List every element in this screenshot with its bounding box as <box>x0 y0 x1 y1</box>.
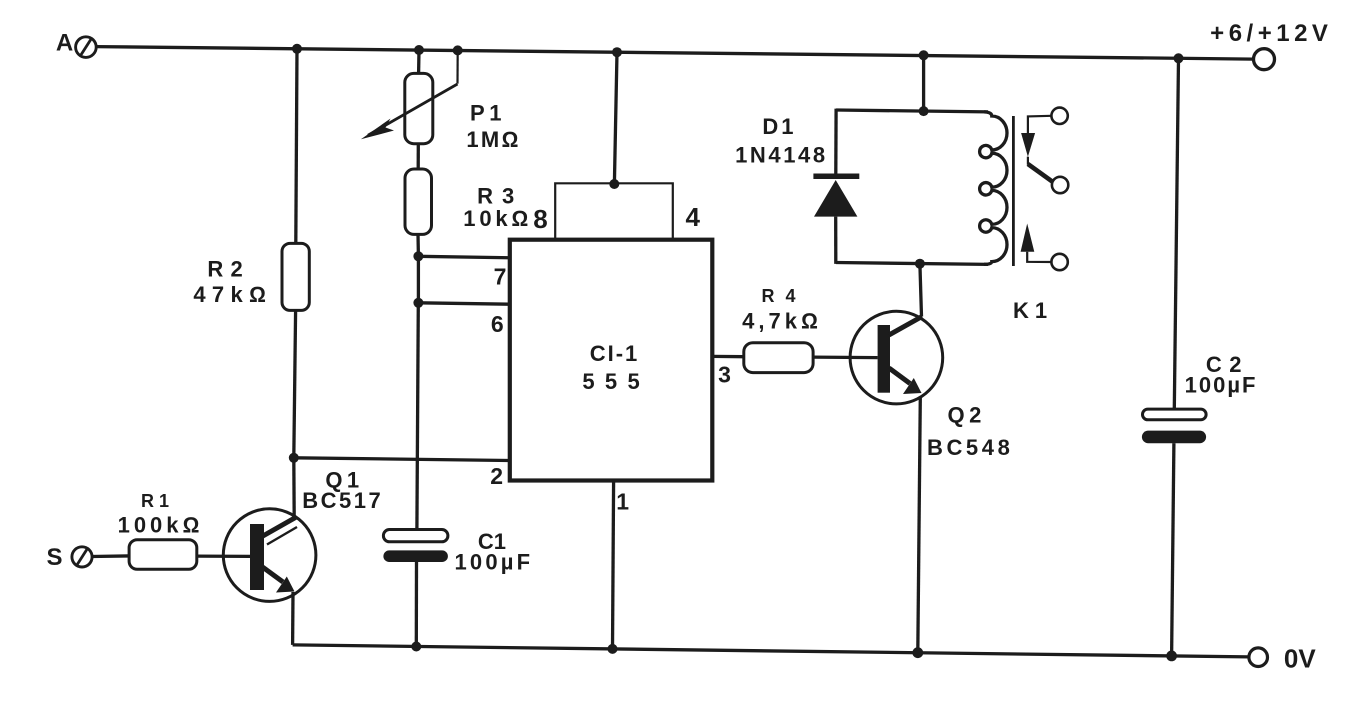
wire bottom 0V rail <box>293 645 1249 657</box>
svg-text:555: 555 <box>582 369 650 394</box>
node pin 6 <box>413 298 423 308</box>
svg-text:BC517: BC517 <box>302 488 383 513</box>
IC CI-1 555 <box>510 240 713 481</box>
svg-text:1MΩ: 1MΩ <box>466 127 520 152</box>
wire rail to bracket <box>614 52 617 183</box>
node Q1 collector / pin 2 <box>289 453 299 463</box>
wire rail to relay coil top <box>922 55 925 111</box>
svg-text:4: 4 <box>685 202 700 232</box>
wire node to Q1 collector <box>292 458 296 518</box>
wire top supply rail <box>96 47 1254 60</box>
node pin1 on 0V rail <box>608 644 618 654</box>
relay K1 contacts <box>1013 108 1068 324</box>
node pin 7 <box>413 251 423 261</box>
potentiometer P1 <box>361 50 521 151</box>
wire pin 1 to 0V rail <box>613 481 614 649</box>
wire R1 to Q1 base <box>197 554 250 558</box>
svg-text:R3: R3 <box>477 183 523 208</box>
wire C1 to 0V rail <box>415 562 419 647</box>
wire R4 to Q2 base <box>813 355 878 359</box>
svg-text:K1: K1 <box>1013 298 1053 323</box>
svg-text:8: 8 <box>533 204 547 234</box>
wire pin 7 <box>418 256 510 258</box>
node top rail P1 wiper branch <box>453 45 463 55</box>
svg-text:P1: P1 <box>470 100 506 125</box>
svg-text:6: 6 <box>491 311 504 337</box>
terminal +6/+12V <box>1210 20 1332 70</box>
relay K1 coil <box>980 112 1007 264</box>
svg-text:R4: R4 <box>761 286 806 306</box>
svg-text:+6/+12V: +6/+12V <box>1210 20 1332 47</box>
svg-text:1N4148: 1N4148 <box>735 143 828 168</box>
node top rail right corner <box>1174 53 1184 63</box>
node Q2 emitter on 0V rail <box>912 647 923 658</box>
wire P1 to R3 <box>417 144 420 169</box>
diode D1 <box>735 109 859 264</box>
svg-text:BC548: BC548 <box>927 435 1013 460</box>
svg-text:0V: 0V <box>1284 644 1316 674</box>
terminal S <box>46 544 92 571</box>
svg-text:S: S <box>46 544 64 571</box>
wire C2 to 0V rail <box>1172 443 1174 656</box>
wire pin 2 <box>294 458 510 461</box>
node C2 on 0V rail <box>1166 651 1177 662</box>
svg-text:Q2: Q2 <box>948 402 986 427</box>
wire coil top horizontal <box>836 110 988 112</box>
node relay coil top <box>919 106 929 116</box>
svg-text:CI-1: CI-1 <box>590 341 640 366</box>
terminal A <box>56 30 96 58</box>
node relay coil bottom <box>915 259 925 269</box>
wire Q2 collector to relay coil bottom <box>920 264 922 317</box>
svg-text:100µF: 100µF <box>454 549 533 574</box>
transistor Q2 <box>850 311 1013 460</box>
svg-text:R2: R2 <box>207 257 250 282</box>
wire Q1 emitter to 0V rail <box>291 592 295 645</box>
node top rail relay branch <box>919 50 929 60</box>
resistor R1 <box>118 491 204 569</box>
wire pin7 node to pin6 node <box>417 256 420 303</box>
node top rail P1 branch <box>414 45 424 55</box>
wire coil bottom horizontal <box>836 263 988 265</box>
svg-text:D1: D1 <box>762 114 796 139</box>
wire R2 to pin2 node <box>294 310 296 457</box>
capacitor C2 <box>1142 352 1258 443</box>
resistor R2 <box>193 243 309 310</box>
wire S to R1 <box>92 554 130 558</box>
wire R3 to pin7 node <box>416 234 420 256</box>
wire 555 supply bracket pins 8-4 <box>555 183 673 239</box>
transistor Q1 <box>223 468 383 602</box>
svg-text:100kΩ: 100kΩ <box>118 513 204 538</box>
wire pin6 node to C1 <box>417 303 418 530</box>
resistor R4 <box>742 286 822 372</box>
wire rail to P1 <box>417 50 421 73</box>
svg-text:A: A <box>56 30 75 57</box>
resistor R3 <box>405 169 532 234</box>
relay K1 core bar <box>1012 116 1015 266</box>
svg-text:10kΩ: 10kΩ <box>463 206 532 231</box>
wire rail to R2 <box>296 49 297 244</box>
svg-text:7: 7 <box>494 264 507 290</box>
svg-text:R1: R1 <box>141 491 174 511</box>
wire Q2 emitter to 0V rail <box>918 397 921 653</box>
wire right rail to C2 <box>1174 58 1178 409</box>
node supply bracket <box>609 179 619 189</box>
svg-text:100µF: 100µF <box>1185 373 1258 398</box>
svg-text:4,7kΩ: 4,7kΩ <box>742 309 822 334</box>
svg-text:1: 1 <box>616 489 629 515</box>
wire pin 3 <box>712 355 744 359</box>
node top rail R2 branch <box>292 44 302 54</box>
svg-text:3: 3 <box>718 362 731 388</box>
terminal 0V <box>1249 644 1316 674</box>
capacitor C1 <box>383 529 533 574</box>
node top rail 555 supply branch <box>612 47 622 57</box>
node C1 on 0V rail <box>411 642 421 652</box>
svg-text:2: 2 <box>490 463 503 489</box>
wire pin 6 <box>418 303 510 304</box>
svg-text:47kΩ: 47kΩ <box>193 282 272 307</box>
